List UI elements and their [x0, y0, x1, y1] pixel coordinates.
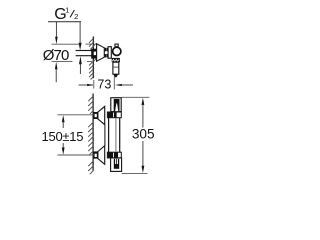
dimension 150±15 upper arrow — [62, 115, 65, 122]
dimension Ø70 lower arrow — [55, 62, 58, 69]
top cap handle (front view) — [111, 98, 121, 112]
body tube (front view) — [108, 112, 110, 152]
body centerline highlight (front view) — [115, 119, 117, 152]
dimension 305 lower extension line — [122, 172, 148, 174]
escutcheon link line (front view) — [104, 125, 106, 146]
supply pipe stub (top view) — [76, 50, 92, 52]
dimension 150±15 upper extension line — [58, 114, 95, 116]
shower outlet tip (top view) — [113, 74, 118, 77]
union nut (top view) — [91, 49, 98, 59]
lower union nut (front view) — [94, 151, 98, 158]
dimension 305 upper extension line — [121, 96, 149, 98]
svg-text:305: 305 — [132, 127, 155, 142]
dimension 73 left tail and arrow — [79, 84, 94, 86]
leader arrow up onto pipe bottom — [79, 56, 82, 64]
shower outlet knurled nut (top view) — [112, 58, 120, 62]
upper union nut (front view) — [94, 112, 98, 119]
wall line (top view) — [92, 37, 94, 79]
dimension Ø70 upper extension tick — [52, 43, 80, 45]
bottom cap handle (front view) — [111, 158, 122, 172]
coupling ring (top view) — [108, 47, 111, 59]
upper shoulder ring (front view) — [107, 112, 121, 118]
leader line G1/2 (underline) — [48, 21, 81, 23]
svg-text:73: 73 — [97, 77, 111, 91]
valve body circle (top view) — [113, 47, 121, 55]
lower escutcheon cone (front view) — [98, 146, 105, 165]
dimension Ø70 lower extension tick — [52, 61, 73, 63]
shower outlet pipe (top view) — [113, 62, 119, 74]
svg-text:2: 2 — [74, 12, 78, 21]
svg-text:1: 1 — [65, 6, 69, 15]
dimension 150±15 lower extension line — [58, 154, 95, 156]
lower shoulder ring (front view) — [107, 152, 121, 158]
dimension 73 right extension line — [113, 77, 115, 90]
dimension 73 left extension line — [93, 80, 95, 89]
dimension 305 upper arrow — [142, 98, 145, 105]
upper escutcheon cone (front view) — [98, 106, 105, 124]
wall hatching (top view) — [89, 38, 96, 80]
dimension 305 lower arrow — [142, 141, 144, 167]
label G1/2 — [54, 6, 78, 23]
nub on top of circle — [115, 44, 118, 47]
dimension 150±15 lower arrow — [62, 143, 64, 150]
dimension 73 right arrow and tail — [115, 84, 122, 86]
fraction slash of G1/2 — [70, 10, 74, 17]
coupling checker nut (top view) — [105, 48, 108, 58]
svg-text:150±15: 150±15 — [42, 129, 84, 144]
wall hatching (front view) — [88, 96, 93, 174]
escutcheon cone (top view) — [97, 44, 105, 61]
leader vertical to pipe with arrow down — [79, 22, 81, 43]
dimension Ø70 upper arrow — [55, 22, 57, 37]
wall line (front view) — [92, 94, 94, 171]
